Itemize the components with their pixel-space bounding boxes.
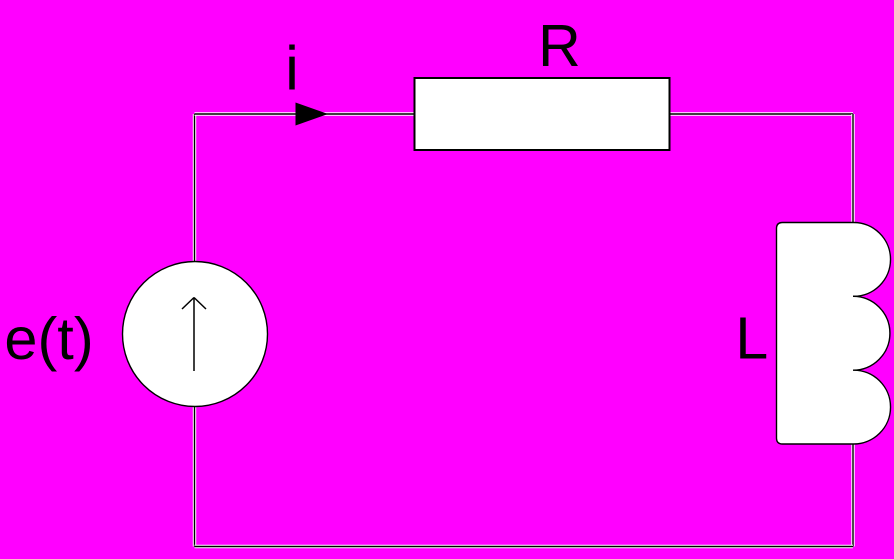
wire left (source to top-left corner and bottom-left corner): [193, 114, 196, 547]
wire bottom (bottom-left corner to bottom-right corner): [195, 545, 854, 548]
svg-text:i: i: [285, 35, 299, 104]
svg-text:e(t): e(t): [4, 305, 93, 372]
inductor L: [777, 222, 891, 444]
resistor R: [415, 78, 670, 150]
current arrow i (triangle on top wire): [296, 103, 329, 126]
source arrow: [182, 298, 206, 372]
svg-text:L: L: [735, 306, 768, 372]
svg-text:R: R: [538, 13, 581, 79]
wire right (top-right corner to inductor, inductor to bottom-right corner): [851, 114, 854, 547]
wire top (node between source and resistor, resistor to top-right corner): [195, 112, 854, 115]
source e(t): [123, 262, 268, 407]
